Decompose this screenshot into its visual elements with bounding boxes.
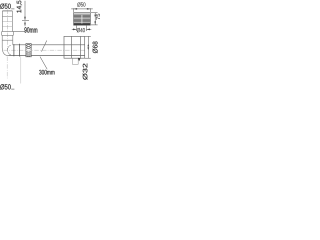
- dim text Ø50 hose: [77, 2, 85, 6]
- standpipe centerline: [6, 10, 8, 50]
- pipe ring joint: [14, 44, 20, 57]
- label Ø32 outlet: [83, 64, 88, 80]
- socket body: [2, 35, 13, 40]
- dim text 14,5: [17, 1, 22, 13]
- dim Ø50 hose lines and arrows: [71, 8, 93, 12]
- centerline below elbow: [6, 57, 8, 79]
- trap body: [64, 36, 85, 58]
- outlet pipe bottom wall: [9, 55, 85, 57]
- dim text Ø40: [77, 28, 85, 32]
- dim Ø68 lines and arrows: [85, 36, 91, 58]
- extension line below pipe: [20, 56, 22, 83]
- socket flange: [2, 32, 14, 36]
- dim 14,5 line and arrow: [22, 1, 29, 21]
- 300mm leader line: [40, 57, 47, 70]
- label Ø50 standpipe: [0, 3, 11, 8]
- underline of Ø50 outlet label: [11, 88, 14, 90]
- dim text 300mm: [39, 70, 54, 75]
- label Ø50 outlet pipe: [0, 84, 11, 89]
- dim text 90mm: [24, 27, 37, 32]
- elbow mouth arc: [8, 45, 11, 55]
- dim Ø40 lines and arrows: [72, 26, 92, 31]
- dim 75 lines and arrows: [91, 13, 98, 25]
- leader under Ø50 label: [11, 8, 14, 10]
- pipe cut mark: [41, 41, 46, 52]
- dim text Ø68: [92, 41, 97, 53]
- corrugated hose: [74, 13, 91, 26]
- dim 90mm arrow and reference line: [13, 21, 26, 32]
- Ø32 leader arrowhead: [78, 58, 81, 61]
- dim text 75: [96, 14, 100, 20]
- elbow bend: [2, 40, 13, 55]
- bottom outlet stub: [72, 58, 78, 64]
- outlet pipe top wall: [13, 44, 85, 46]
- pipe centerline: [4, 49, 85, 51]
- standpipe (vertical inlet pipe, top left): [2, 11, 12, 32]
- hatched compression nut: [26, 44, 31, 57]
